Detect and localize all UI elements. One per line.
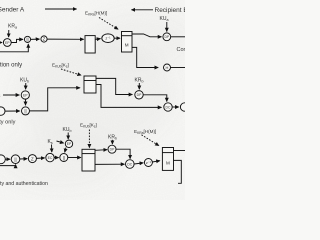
svg-text:EP: EP <box>23 93 28 97</box>
svg-text:||: || <box>63 155 65 160</box>
svg-text:ation only: ation only <box>0 62 22 68</box>
svg-text:Z: Z <box>43 37 46 42</box>
svg-text:Sender A: Sender A <box>0 7 25 14</box>
svg-text:EC: EC <box>48 156 53 160</box>
svg-text:||: || <box>26 37 28 42</box>
svg-text:EP: EP <box>5 41 10 45</box>
svg-text:||: || <box>14 157 16 162</box>
svg-text:Z: Z <box>31 156 34 161</box>
svg-text:DP: DP <box>110 148 115 152</box>
svg-text:z⁻¹: z⁻¹ <box>146 161 152 165</box>
svg-text:||: || <box>24 109 26 114</box>
svg-text:DP: DP <box>164 35 169 39</box>
svg-text:EP: EP <box>67 142 72 146</box>
svg-text:DC: DC <box>166 105 171 109</box>
svg-text:M: M <box>166 161 170 166</box>
svg-text:z⁻¹: z⁻¹ <box>105 37 111 41</box>
svg-text:DP: DP <box>137 93 142 97</box>
svg-text:M: M <box>125 42 129 47</box>
svg-text:H: H <box>166 65 169 70</box>
svg-text:ity only: ity only <box>0 120 16 126</box>
svg-text:DC: DC <box>127 162 132 166</box>
svg-text:Com: Com <box>177 47 186 53</box>
svg-text:Recipient B: Recipient B <box>155 7 186 14</box>
svg-text:ty and authentication: ty and authentication <box>0 181 48 187</box>
